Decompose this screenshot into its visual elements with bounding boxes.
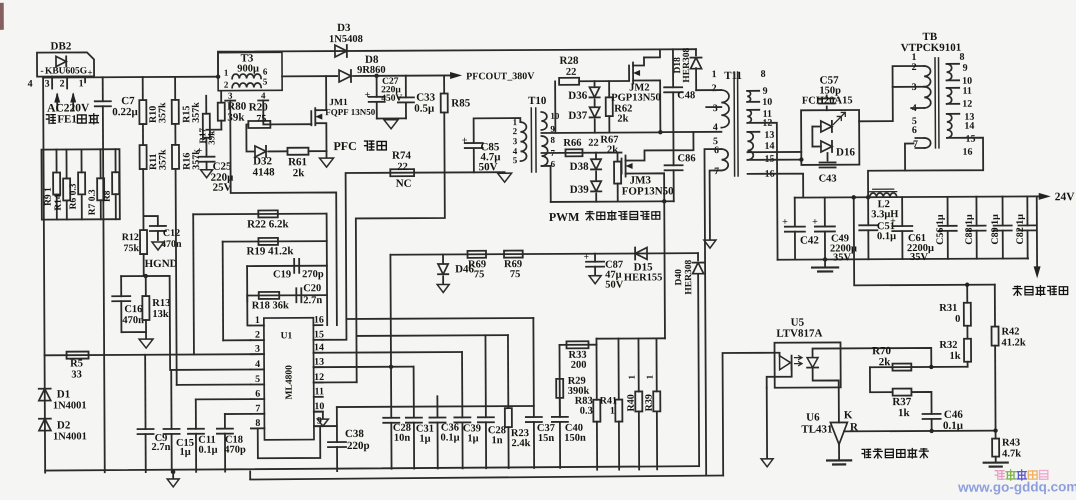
svg-text:C19: C19 <box>273 269 291 280</box>
T11 primary winding upper <box>721 90 729 128</box>
wire: JM3 source row <box>551 200 674 203</box>
TB primary winding 3-4 <box>924 87 931 108</box>
resistor R11 357k <box>142 124 144 145</box>
svg-text:R8: R8 <box>103 190 113 202</box>
resistor R67 2k <box>616 153 618 162</box>
svg-text:8: 8 <box>255 418 260 429</box>
svg-text:R32: R32 <box>939 340 957 351</box>
diode D3 1N5408 <box>335 45 347 57</box>
capacitor C27 220u 450V electrolytic <box>376 76 378 97</box>
svg-text:22: 22 <box>566 67 577 78</box>
svg-text:470p: 470p <box>224 445 246 456</box>
TB secondary 13-15 <box>947 114 952 138</box>
TB pin7 stub down <box>905 144 914 171</box>
svg-text:2.7n: 2.7n <box>152 442 171 453</box>
MOSFET JM3 FOP13N50 <box>621 159 623 174</box>
svg-text:T11: T11 <box>724 70 742 82</box>
wire: R37 to C46 <box>911 392 931 414</box>
ground: R13 arrow <box>139 339 153 348</box>
diode D46 <box>442 254 444 263</box>
svg-text:9R860: 9R860 <box>357 65 386 76</box>
svg-text:U1: U1 <box>281 331 293 341</box>
ground: C25 arrow <box>201 170 213 178</box>
svg-text:R22 6.2k: R22 6.2k <box>247 218 290 230</box>
U1 pin 11 <box>314 396 323 398</box>
svg-text:PFCOUT_380V: PFCOUT_380V <box>466 71 535 82</box>
svg-text:2.7n: 2.7n <box>303 295 322 306</box>
resistor R18 36k <box>259 292 280 299</box>
resistor R12 75k <box>140 230 147 254</box>
wire: gate network left branch <box>246 124 253 151</box>
capacitor C38 220p <box>336 407 338 442</box>
svg-text:0.5μ: 0.5μ <box>414 103 435 115</box>
wire: T3 out to D8 <box>282 75 337 77</box>
svg-text:D2: D2 <box>57 419 71 431</box>
svg-text:2: 2 <box>912 62 917 73</box>
svg-text:1: 1 <box>255 315 260 326</box>
wire: U1 pin6 row <box>196 398 251 400</box>
svg-text:14: 14 <box>964 121 974 132</box>
U1 pin 16 <box>313 324 322 326</box>
resistor R15 357k <box>174 77 176 100</box>
svg-text:+: + <box>812 217 818 228</box>
wire: HGND node row <box>121 275 169 277</box>
svg-text:12: 12 <box>314 372 324 383</box>
capacitor C7 0.22u <box>102 77 104 101</box>
resistor R29 390k <box>556 379 563 398</box>
svg-text:470n: 470n <box>161 239 182 250</box>
capacitor C16 470n <box>120 276 122 296</box>
svg-text:3: 3 <box>713 103 718 114</box>
wire: R70 row <box>870 366 968 369</box>
svg-text:0.1μ: 0.1μ <box>198 445 217 456</box>
svg-text:FQPF 13N50: FQPF 13N50 <box>325 107 375 117</box>
TB secondary 11-12 <box>947 88 952 104</box>
capacitor C87 47u 50V <box>594 254 596 262</box>
wire: opto LED drive from secondary <box>723 353 776 476</box>
resistor R16 357k <box>174 124 176 145</box>
svg-text:R19 41.2k: R19 41.2k <box>246 245 294 257</box>
svg-text:R18 36k: R18 36k <box>252 300 289 311</box>
wire: JM2 drain to top rail <box>644 49 660 57</box>
wire: HGND node to U1 pin4 <box>170 276 251 370</box>
resistor R42 41.2k <box>994 285 996 327</box>
wire: R33 R29 sense row <box>559 344 596 346</box>
wire: R22 row <box>193 213 326 216</box>
resistor R32 1k <box>966 326 968 339</box>
ground: bottom bus arrow <box>171 470 175 474</box>
ground: JM1 source arrow <box>320 158 334 167</box>
U1 pin 4 <box>251 368 264 370</box>
wire: U1 pin13 row to C31 <box>314 366 414 369</box>
svg-text:HER308: HER308 <box>682 48 692 83</box>
resistor R13 13k <box>145 276 147 296</box>
svg-text:C89 1μ: C89 1μ <box>990 214 1001 245</box>
svg-text:1: 1 <box>610 406 615 417</box>
T11 core <box>733 72 736 176</box>
TB pin15 wire to L2 node <box>868 138 984 198</box>
wire: T3 pin4 to gate network <box>263 100 271 124</box>
capacitor C42 2200u <box>794 198 796 227</box>
T11 pin4 wire to bridge node <box>660 131 721 133</box>
svg-text:9: 9 <box>763 86 768 97</box>
svg-text:6: 6 <box>263 66 268 76</box>
wire: compensation network right bus <box>326 214 329 325</box>
ground: T11 pin7 arrow <box>710 170 722 239</box>
svg-text:ML4800: ML4800 <box>285 365 295 400</box>
T11 pin13 stub <box>747 131 759 133</box>
T10 core <box>530 108 532 172</box>
svg-text:2: 2 <box>513 126 518 136</box>
svg-text:T10: T10 <box>528 95 547 107</box>
U5 LED <box>775 353 780 356</box>
capacitor C49 2200u 35V <box>824 197 826 226</box>
diode D18 HER308 <box>695 49 697 55</box>
svg-text:K: K <box>844 409 853 421</box>
LED arrows <box>833 112 845 124</box>
svg-text:25V: 25V <box>213 182 232 194</box>
TB primary winding 2-3 <box>924 66 931 87</box>
svg-text:13: 13 <box>314 357 324 368</box>
svg-text:7: 7 <box>255 403 260 414</box>
svg-text:R12: R12 <box>122 232 139 243</box>
svg-text:C43: C43 <box>819 173 837 184</box>
diode D15 HER155 <box>635 247 647 259</box>
resistor R39 <box>655 338 657 391</box>
svg-text:C82 1μ: C82 1μ <box>1015 214 1026 245</box>
svg-text:1: 1 <box>645 374 655 379</box>
svg-text:C20: C20 <box>303 283 321 294</box>
svg-text:0.1μ: 0.1μ <box>440 432 459 443</box>
svg-text:D37: D37 <box>568 110 588 122</box>
U1 pin 5 <box>251 383 264 385</box>
capacitor C82 1u <box>1026 196 1028 225</box>
resistor R7 <box>99 149 101 178</box>
U1 pin 2 <box>250 339 263 341</box>
wire: output sense feed <box>854 197 995 286</box>
svg-text:1μ: 1μ <box>419 434 430 445</box>
svg-text:16: 16 <box>962 147 972 158</box>
svg-text:8: 8 <box>959 52 964 63</box>
resistor R43 4.7k <box>993 428 997 432</box>
svg-text:33: 33 <box>71 369 82 380</box>
svg-text:9: 9 <box>963 63 968 74</box>
resistor R70 2k <box>892 364 911 371</box>
U1 pin 15 <box>313 339 322 341</box>
svg-text:HER155: HER155 <box>624 272 663 283</box>
svg-text:3: 3 <box>228 91 233 101</box>
capacitor C31 1u <box>413 367 415 418</box>
svg-text:14: 14 <box>764 141 774 152</box>
resistor R62 2k <box>608 81 610 97</box>
svg-text:R85: R85 <box>451 97 471 109</box>
PFCOUT_380V arrow <box>450 72 462 79</box>
svg-text:1k: 1k <box>949 351 960 362</box>
wire: JM2 source return row <box>541 131 660 134</box>
svg-text:357k: 357k <box>157 102 168 123</box>
capacitor C37 15n <box>532 318 535 417</box>
svg-text:4: 4 <box>261 90 266 100</box>
svg-text:+: + <box>462 135 468 146</box>
resistor R10 357k <box>142 77 144 100</box>
capacitor C11 0.1u <box>195 399 197 428</box>
T11 pin15 wire to C43 node <box>748 159 802 161</box>
svg-text:1N4001: 1N4001 <box>53 400 87 411</box>
svg-text:FCH20A15: FCH20A15 <box>802 95 853 106</box>
snubber network D16 box <box>801 110 859 165</box>
svg-text:2k: 2k <box>879 356 892 368</box>
wire: R11 to R12 <box>142 169 144 230</box>
bridge rectifier DB2 KBU605G <box>37 52 94 76</box>
TB core <box>934 58 936 148</box>
T11 pin9 stub <box>747 90 759 92</box>
resistor R80 39k <box>220 77 222 103</box>
resistor R31 0 <box>966 285 968 303</box>
wire: AC rail under DB2 <box>43 76 218 79</box>
resistor R17 39k <box>205 96 207 114</box>
wire: U1 pin9 row to C38 <box>314 425 337 427</box>
svg-text:R20: R20 <box>249 101 269 113</box>
svg-text:KBU605G: KBU605G <box>45 66 88 76</box>
svg-text:270p: 270p <box>302 269 324 280</box>
svg-text:2k: 2k <box>293 167 306 179</box>
svg-text:1: 1 <box>712 69 717 80</box>
svg-text:2k: 2k <box>607 145 618 156</box>
svg-text:39k: 39k <box>206 131 216 145</box>
svg-text:0: 0 <box>955 314 960 325</box>
svg-text:11: 11 <box>962 86 972 97</box>
resistor R61 2k <box>287 148 308 155</box>
svg-text:R43: R43 <box>1002 437 1020 448</box>
capacitor C88 1u <box>975 197 977 226</box>
capacitor C28b 1n <box>484 335 486 417</box>
svg-text:41.2k: 41.2k <box>1001 337 1025 348</box>
svg-text:4.7k: 4.7k <box>1002 448 1021 459</box>
wire: R19 row <box>223 240 327 243</box>
resistor R22 6.2k <box>258 210 278 217</box>
svg-text:75: 75 <box>510 269 521 280</box>
capacitor C56 1u <box>947 197 949 226</box>
resistor R69 75 second <box>504 251 523 258</box>
diode D2 1N4001 <box>39 419 51 431</box>
diode D32 4148 <box>255 146 266 157</box>
T11 pin3 stub <box>706 106 721 108</box>
resistor R33 200 <box>566 341 588 348</box>
svg-text:8: 8 <box>761 69 766 80</box>
T11 secondary winding 11-12 <box>747 110 751 123</box>
T11 pin2 wire to D18 <box>696 89 721 91</box>
resistor R28 22 <box>559 78 579 85</box>
wire: R19 left leg to U1 pin2 <box>222 242 225 341</box>
svg-text:3: 3 <box>45 79 50 90</box>
decorative corner mark <box>0 3 4 30</box>
wire: R20 to JM1 gate <box>270 123 311 125</box>
svg-text:0.22μ: 0.22μ <box>112 106 138 118</box>
wire: R85 bottom to U1 pin14 net <box>355 112 445 382</box>
T11 primary winding lower <box>721 149 728 170</box>
T10 primary winding <box>520 122 526 161</box>
capacitor C18 470p <box>224 414 226 429</box>
svg-text:C16: C16 <box>124 304 142 315</box>
T11 pin11 stub <box>747 109 759 111</box>
svg-text:D36: D36 <box>568 90 588 102</box>
svg-text:2k: 2k <box>617 114 628 125</box>
svg-text:R31: R31 <box>939 303 957 314</box>
svg-text:D39: D39 <box>570 184 590 196</box>
resistor R9 <box>55 150 57 173</box>
svg-text:R74: R74 <box>392 150 412 162</box>
svg-text:3: 3 <box>255 344 260 355</box>
label: via FE1 control <box>46 115 55 124</box>
junction dot C27 tap <box>374 74 378 78</box>
svg-text:13: 13 <box>764 130 774 141</box>
resistor R69 75 first <box>468 251 487 258</box>
wire: U1 pin8 loop under IC <box>251 427 320 458</box>
svg-text:0.3: 0.3 <box>580 406 593 417</box>
svg-text:357k: 357k <box>157 149 168 170</box>
svg-text:R6 0.3: R6 0.3 <box>69 183 79 209</box>
svg-text:22: 22 <box>588 138 599 149</box>
wire: C19 row <box>247 265 327 267</box>
resistor block R9 R14 R6 R7 R8 <box>41 149 119 219</box>
capacitor C19 270p <box>293 259 295 273</box>
svg-text:R7 0.3: R7 0.3 <box>88 189 98 215</box>
wire: 24V output rail <box>795 196 1046 197</box>
TB winding 7 <box>924 138 930 148</box>
watermark site name <box>995 471 1004 480</box>
diode D16 upper <box>821 121 832 132</box>
svg-text:C42: C42 <box>800 235 820 247</box>
diode D37 <box>594 100 596 107</box>
wire: left AC vertical <box>43 78 45 473</box>
svg-text:12: 12 <box>962 99 972 110</box>
capacitor C15 1u <box>170 370 172 429</box>
svg-text:R40: R40 <box>626 394 637 411</box>
T11 pin12 wire to output return <box>747 123 777 260</box>
ground: output bar <box>824 259 826 266</box>
capacitor C20 2.7n <box>295 288 297 302</box>
wire: R16 down to U1 pin5 row <box>176 169 177 385</box>
svg-text:15n: 15n <box>538 433 555 444</box>
diode D40 HER308 <box>697 253 699 260</box>
wire: C19 R18 left leg to U1 pin1 <box>247 266 250 325</box>
svg-text:3: 3 <box>513 136 518 146</box>
wire: T3 pin3 feedback to U1 pin16 <box>230 100 337 326</box>
wire: top bypass rail with D3 <box>218 49 696 77</box>
label: sampling error amplifier <box>862 449 870 457</box>
capacitor C43 <box>826 153 828 160</box>
inductor L2 3.3uH <box>870 193 897 197</box>
svg-text:5: 5 <box>513 155 518 165</box>
wire: U1 pin7 row <box>225 413 251 415</box>
T11 pin6 wire down to second bus <box>704 149 723 476</box>
svg-text:24V: 24V <box>1055 191 1076 203</box>
U1 pin 9 <box>314 425 323 427</box>
svg-text:+: + <box>87 67 92 77</box>
svg-text:8: 8 <box>550 135 555 145</box>
svg-text:7: 7 <box>714 166 719 177</box>
svg-text:NC: NC <box>396 178 412 190</box>
wire: R69 D15 bias row <box>390 253 698 255</box>
svg-text:1N5408: 1N5408 <box>329 34 363 45</box>
svg-text:U6: U6 <box>806 412 820 424</box>
svg-text:4148: 4148 <box>253 166 276 178</box>
svg-text:200: 200 <box>571 360 587 371</box>
T11 pin14 wire to D16 box <box>747 151 801 153</box>
svg-text:2: 2 <box>224 80 229 90</box>
wire: TL431 reference row <box>844 430 996 433</box>
resistor R19 41.2k <box>258 238 278 245</box>
svg-text:357k: 357k <box>191 102 202 123</box>
resistor R66 22 <box>565 149 582 156</box>
svg-text:22: 22 <box>397 162 408 173</box>
svg-text:R28: R28 <box>560 55 580 67</box>
wire: R18 C20 row <box>247 294 327 296</box>
svg-text:-: - <box>40 66 43 77</box>
DB2 internal diode <box>56 56 66 66</box>
diode D1 1N4001 <box>39 389 51 401</box>
svg-text:900μ: 900μ <box>237 63 259 74</box>
U1 pin 8 <box>251 427 264 429</box>
resistor R41 1 <box>617 339 619 400</box>
svg-text:2: 2 <box>712 83 717 94</box>
T11 secondary winding 13-15 <box>747 132 753 160</box>
svg-text:50V: 50V <box>479 161 498 173</box>
U5 detector <box>813 348 841 356</box>
svg-text:1: 1 <box>627 374 637 379</box>
AC input arrows <box>56 95 58 111</box>
svg-text:C88 1μ: C88 1μ <box>964 214 975 245</box>
capacitor C28 10n <box>389 255 392 418</box>
U1 pin 6 <box>251 398 264 400</box>
resistor R8 <box>114 149 116 172</box>
resistor R85 <box>443 75 445 93</box>
svg-text:C56 1μ: C56 1μ <box>935 214 946 245</box>
svg-text:D3: D3 <box>337 22 351 34</box>
svg-text:FE1: FE1 <box>57 113 77 125</box>
svg-text:15: 15 <box>965 134 975 145</box>
svg-text:75: 75 <box>474 269 485 280</box>
capacitor C61 2200u 35V <box>901 197 903 226</box>
svg-text:0.1μ: 0.1μ <box>877 231 896 242</box>
wire: output bottom rail <box>778 258 1028 259</box>
svg-text:DB2: DB2 <box>51 40 72 52</box>
capacitor C12 470n <box>143 216 157 226</box>
svg-text:10n: 10n <box>394 433 411 444</box>
svg-text:35V: 35V <box>833 252 852 263</box>
capacitor C36 0.1u <box>436 396 438 417</box>
svg-text:D1: D1 <box>57 388 71 400</box>
svg-text:150n: 150n <box>564 433 586 444</box>
ground: C27 arrow <box>384 120 398 129</box>
svg-text:10: 10 <box>314 401 324 412</box>
svg-text:D38: D38 <box>570 161 590 173</box>
T11 secondary winding 9-10 <box>747 91 750 102</box>
svg-text:11: 11 <box>314 386 324 397</box>
U1 pin 13 <box>314 366 323 368</box>
svg-text:TL431: TL431 <box>801 423 832 435</box>
svg-text:C38: C38 <box>345 428 365 440</box>
svg-text:HGND: HGND <box>145 258 178 270</box>
TB secondary 9-10 <box>947 64 952 81</box>
junction dot T3 pin1 <box>216 74 220 78</box>
svg-text:2: 2 <box>255 330 260 341</box>
svg-text:220p: 220p <box>347 440 370 452</box>
svg-text:2.4k: 2.4k <box>512 438 531 449</box>
diode D8 9R860 <box>339 70 351 82</box>
capacitor C25 220u 25V electrolytic <box>205 138 207 157</box>
wire: D8 to PFCOUT <box>353 74 451 77</box>
